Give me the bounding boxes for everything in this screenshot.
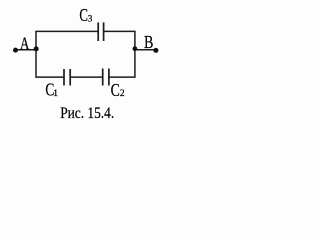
wire: top side right segment (C3 right plate to node B side) [104,30,135,32]
svg-text:A: A [20,34,30,54]
svg-text:2: 2 [120,89,125,99]
svg-text:C: C [111,80,120,100]
wire: external lead from right side to terminal B [135,49,157,51]
junction dot at node A on left side [34,46,39,51]
terminal dot A [13,48,18,53]
capacitor C2 (bottom right) plates [103,69,109,86]
wire: top side left segment (node A side to C3 left plate) [36,30,98,32]
junction dot at node B on right side [133,46,138,51]
capacitor C1 (bottom left) plates [64,69,70,86]
wire: left vertical side of loop [35,31,37,78]
svg-text:3: 3 [88,15,93,25]
svg-text:B: B [144,32,153,52]
wire: bottom side middle segment (C1 to C2) [70,76,103,78]
svg-text:1: 1 [53,89,58,99]
wire: right vertical side of loop [134,31,136,78]
wire: external lead from terminal A to left side [15,49,37,51]
capacitor C3 (top branch) plates [98,22,103,41]
terminal dot B [153,48,158,53]
wire: bottom side left segment (to C1 left plate) [36,76,64,78]
svg-text:Рис. 15.4.: Рис. 15.4. [60,105,114,122]
wire: bottom side right segment (C2 right plate to right side) [109,76,135,78]
